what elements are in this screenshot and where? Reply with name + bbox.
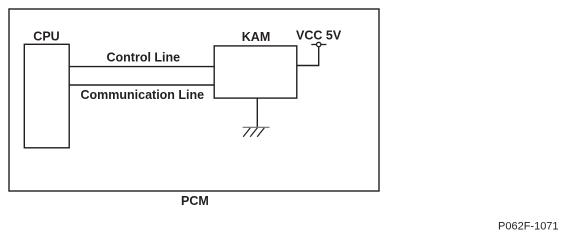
svg-text:P062F-1071: P062F-1071 bbox=[498, 221, 559, 233]
svg-text:CPU: CPU bbox=[33, 30, 59, 44]
svg-text:KAM: KAM bbox=[242, 30, 270, 44]
svg-text:VCC 5V: VCC 5V bbox=[296, 29, 342, 43]
svg-text:Control Line: Control Line bbox=[107, 51, 181, 65]
svg-text:PCM: PCM bbox=[181, 194, 209, 208]
svg-text:Communication Line: Communication Line bbox=[81, 88, 205, 102]
